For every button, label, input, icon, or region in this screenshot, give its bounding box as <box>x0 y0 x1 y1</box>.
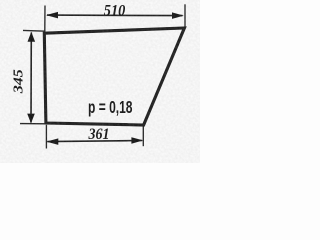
extension line left of bottom-left corner <box>20 123 47 125</box>
arrowhead right of 510 <box>172 12 184 19</box>
arrowhead top of 345 <box>28 32 36 42</box>
extension line left of top-left corner <box>23 29 46 32</box>
trapezoid body outline <box>44 28 184 125</box>
arrowhead left of 361 <box>46 138 58 145</box>
dimension line 510 <box>47 14 183 17</box>
extension line above top-right corner <box>184 4 186 28</box>
arrowhead right of 361 <box>131 137 143 144</box>
dimension line 345 <box>30 33 32 123</box>
scan grain overlay <box>0 0 200 163</box>
arrowhead left of 510 <box>46 12 58 19</box>
scanned dimensioned trapezoid figure <box>0 0 200 163</box>
extension line above top-left corner <box>44 6 46 32</box>
extension line below bottom-right corner <box>142 127 144 147</box>
arrowhead bottom of 345 <box>27 114 35 124</box>
dimension line 361 <box>47 141 142 142</box>
extension line below bottom-left corner <box>45 125 47 149</box>
